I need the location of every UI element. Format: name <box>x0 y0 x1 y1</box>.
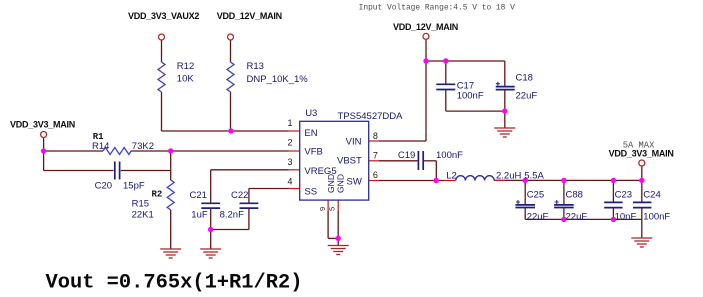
svg-text:C21: C21 <box>190 190 207 201</box>
svg-text:C22: C22 <box>231 190 248 201</box>
svg-text:R1: R1 <box>93 132 104 142</box>
svg-text:R14: R14 <box>92 141 109 152</box>
svg-text:VDD_12V_MAIN: VDD_12V_MAIN <box>217 11 282 21</box>
svg-text:VIN: VIN <box>346 136 362 147</box>
svg-text:10K: 10K <box>177 74 195 85</box>
svg-text:C88: C88 <box>566 190 583 201</box>
svg-text:VBST: VBST <box>337 156 362 167</box>
svg-text:5: 5 <box>327 207 336 211</box>
svg-text:C20: C20 <box>95 181 112 192</box>
svg-text:C19: C19 <box>398 150 415 161</box>
svg-text:Vout =0.765x(1+R1/R2): Vout =0.765x(1+R1/R2) <box>46 272 303 295</box>
svg-text:GND: GND <box>335 174 345 193</box>
svg-text:TPS54527DDA: TPS54527DDA <box>338 111 404 122</box>
svg-text:GND: GND <box>326 174 336 193</box>
svg-text:6: 6 <box>373 170 378 180</box>
svg-text:SS: SS <box>304 187 317 198</box>
svg-text:73K2: 73K2 <box>132 141 154 152</box>
svg-text:5.5A: 5.5A <box>524 170 544 181</box>
svg-text:22uF: 22uF <box>566 211 588 222</box>
svg-text:100nF: 100nF <box>643 211 670 222</box>
svg-text:C24: C24 <box>643 190 660 201</box>
svg-text:1: 1 <box>287 118 292 128</box>
svg-text:R15: R15 <box>132 199 149 210</box>
svg-text:C18: C18 <box>516 73 533 84</box>
svg-text:5A MAX: 5A MAX <box>623 141 655 151</box>
svg-text:15pF: 15pF <box>123 181 145 192</box>
svg-text:7: 7 <box>373 150 378 160</box>
svg-text:U3: U3 <box>305 108 317 119</box>
svg-text:2.2uH: 2.2uH <box>496 170 521 181</box>
svg-text:C23: C23 <box>615 190 632 201</box>
svg-text:8.2nF: 8.2nF <box>220 209 244 220</box>
svg-text:C25: C25 <box>527 190 544 201</box>
svg-text:Input Voltage Range:4.5 V to 1: Input Voltage Range:4.5 V to 18 V <box>359 4 516 13</box>
svg-text:22K1: 22K1 <box>132 210 154 221</box>
svg-text:10nF: 10nF <box>615 211 637 222</box>
svg-text:R12: R12 <box>177 61 194 72</box>
svg-text:9: 9 <box>318 207 327 211</box>
svg-text:R13: R13 <box>247 61 264 72</box>
svg-text:1uF: 1uF <box>191 209 208 220</box>
svg-text:VDD_12V_MAIN: VDD_12V_MAIN <box>393 22 458 32</box>
svg-text:4: 4 <box>287 176 292 186</box>
svg-text:EN: EN <box>304 128 317 139</box>
svg-text:100nF: 100nF <box>436 150 463 161</box>
svg-text:R2: R2 <box>152 190 163 200</box>
svg-text:DNP_10K_1%: DNP_10K_1% <box>247 74 309 85</box>
svg-text:SW: SW <box>346 176 361 187</box>
svg-text:2: 2 <box>287 138 292 148</box>
svg-text:L2: L2 <box>446 170 457 181</box>
svg-text:22uF: 22uF <box>516 91 538 102</box>
svg-text:8: 8 <box>373 131 378 141</box>
svg-text:VDD_3V3_MAIN: VDD_3V3_MAIN <box>10 120 75 130</box>
svg-text:22uF: 22uF <box>527 211 549 222</box>
svg-text:VFB: VFB <box>304 147 322 158</box>
svg-text:100nF: 100nF <box>457 91 484 102</box>
svg-text:3: 3 <box>287 157 292 167</box>
svg-text:VDD_3V3_VAUX2: VDD_3V3_VAUX2 <box>128 11 199 21</box>
